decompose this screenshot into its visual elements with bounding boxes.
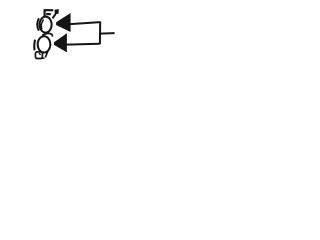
photocell PC1 terminal block bbox=[55, 9, 59, 14]
photocell PC2 base inner tick bbox=[39, 53, 41, 55]
photocell PC1 anode terminal bbox=[45, 10, 54, 17]
photocell PC1 lead bbox=[53, 14, 56, 19]
photocell PC1 cathode bracket bbox=[37, 18, 39, 30]
photocell PC2 lead stub bbox=[43, 52, 47, 57]
photocell PC2 anode hook bbox=[42, 33, 52, 36]
photocell PC2 envelope bbox=[38, 36, 51, 52]
photocell PC1 terminal bar bbox=[46, 13, 51, 15]
wire to light source bbox=[100, 32, 115, 35]
photocell PC1 cathode inner arc bbox=[41, 20, 43, 30]
light arrow 2 head bbox=[54, 33, 67, 52]
light arrow 1 head bbox=[56, 13, 71, 32]
light arrow 2 shaft bbox=[67, 43, 100, 46]
arrow joining bar bbox=[99, 22, 101, 45]
light arrow 1 shaft bbox=[70, 22, 100, 24]
photocell PC2 base bottom streak bbox=[40, 57, 44, 59]
photocell PC1 envelope bbox=[40, 17, 52, 33]
photocell PC2 cathode bracket bbox=[33, 40, 36, 51]
photocell PC2 base box bbox=[35, 52, 42, 59]
